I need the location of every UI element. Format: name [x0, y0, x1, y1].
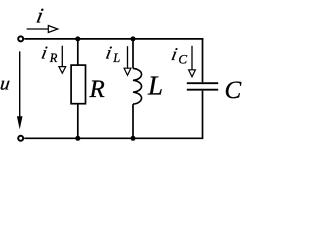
current arrow iL — [127, 46, 129, 68]
terminal bottom-left — [18, 136, 23, 141]
svg-text:R: R — [89, 76, 105, 103]
voltage arrow u — [19, 51, 21, 117]
current arrow i — [27, 28, 49, 30]
svg-text:L: L — [112, 51, 120, 65]
wire L branch top — [132, 39, 134, 69]
svg-text:R: R — [49, 51, 58, 65]
svg-text:C: C — [225, 77, 242, 104]
node junction dot bottom L — [131, 136, 136, 141]
current arrow iC — [191, 46, 193, 70]
wire top — [24, 38, 203, 40]
node junction dot top L — [131, 36, 136, 41]
wire bottom — [24, 137, 203, 139]
svg-text:L: L — [147, 71, 163, 101]
node junction dot bottom R — [75, 136, 80, 141]
wire right upper — [202, 39, 205, 82]
node junction dot top R — [75, 36, 80, 41]
capacitor C bottom plate — [187, 89, 218, 91]
current arrow iR — [61, 46, 63, 67]
svg-text:C: C — [178, 51, 187, 66]
wire R branch top — [77, 39, 79, 65]
wire right lower — [202, 91, 204, 139]
inductor L — [133, 68, 142, 104]
capacitor C top plate — [187, 82, 218, 84]
terminal top-left — [18, 36, 23, 41]
wire L branch bottom — [132, 104, 134, 138]
wire R branch bottom — [77, 104, 79, 139]
resistor R — [71, 65, 85, 104]
